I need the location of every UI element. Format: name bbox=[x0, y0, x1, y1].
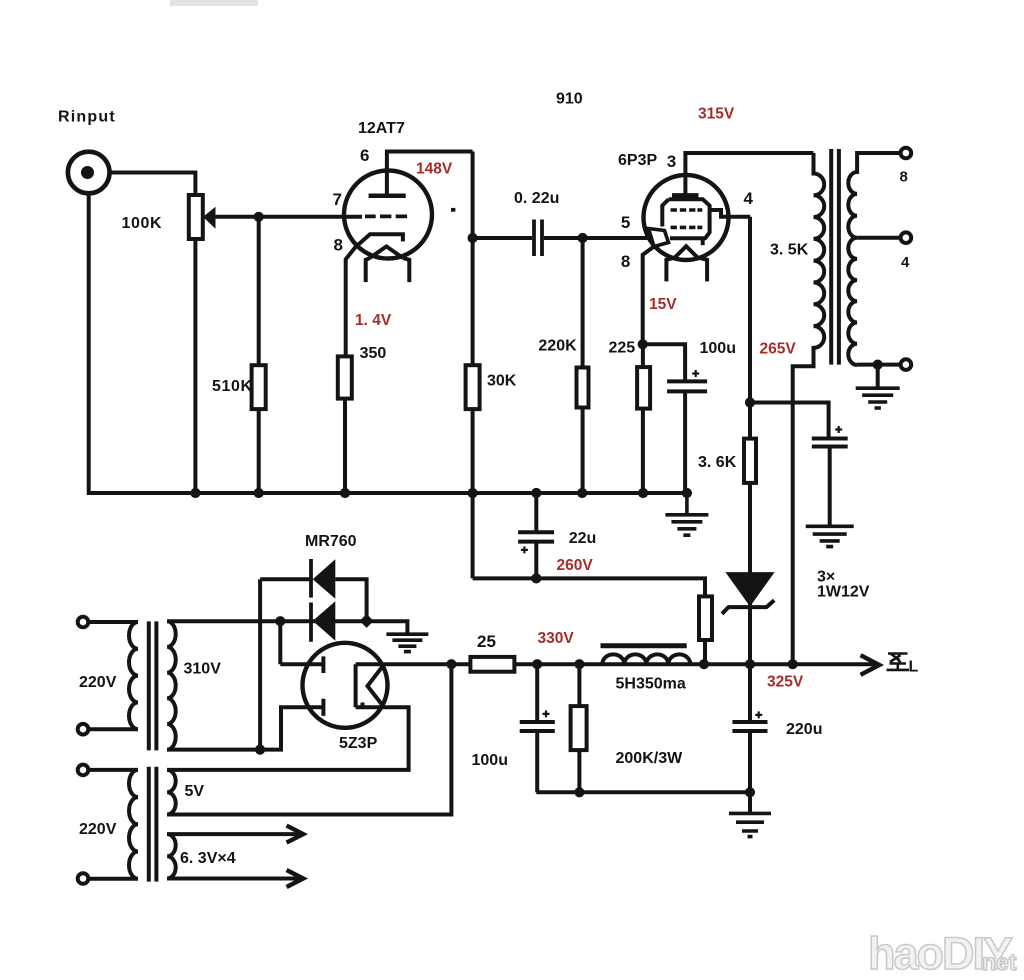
svg-text:5H350ma: 5H350ma bbox=[616, 676, 686, 693]
svg-text:4: 4 bbox=[901, 254, 910, 271]
svg-text:1W12V: 1W12V bbox=[817, 584, 870, 601]
svg-text:100u: 100u bbox=[700, 340, 736, 357]
svg-text:220u: 220u bbox=[786, 721, 822, 738]
svg-text:6: 6 bbox=[360, 146, 369, 165]
svg-text:330V: 330V bbox=[538, 630, 575, 647]
svg-text:22u: 22u bbox=[569, 530, 597, 547]
svg-text:12AT7: 12AT7 bbox=[358, 120, 405, 137]
svg-text:350: 350 bbox=[360, 345, 387, 362]
svg-text:5: 5 bbox=[621, 213, 630, 232]
svg-text:L: L bbox=[909, 659, 919, 676]
svg-text:100u: 100u bbox=[472, 752, 508, 769]
svg-text:net: net bbox=[982, 949, 1017, 975]
svg-text:25: 25 bbox=[477, 632, 496, 651]
svg-text:8: 8 bbox=[621, 252, 630, 271]
svg-text:200K/3W: 200K/3W bbox=[616, 750, 684, 767]
svg-text:MR760: MR760 bbox=[305, 533, 357, 550]
svg-text:3. 6K: 3. 6K bbox=[698, 454, 737, 471]
svg-text:Rinput: Rinput bbox=[58, 109, 116, 126]
svg-text:315V: 315V bbox=[698, 106, 735, 123]
svg-text:3. 5K: 3. 5K bbox=[770, 242, 809, 259]
svg-text:4: 4 bbox=[744, 189, 754, 208]
svg-text:325V: 325V bbox=[767, 674, 804, 691]
svg-text:7: 7 bbox=[333, 190, 342, 209]
svg-text:510K: 510K bbox=[212, 378, 253, 395]
svg-text:6. 3V×4: 6. 3V×4 bbox=[180, 850, 236, 867]
svg-text:5Z3P: 5Z3P bbox=[339, 735, 378, 752]
svg-text:225: 225 bbox=[609, 340, 636, 357]
svg-text:220V: 220V bbox=[79, 674, 117, 691]
svg-text:30K: 30K bbox=[487, 373, 517, 390]
svg-text:3: 3 bbox=[667, 152, 676, 171]
svg-text:100K: 100K bbox=[122, 215, 163, 232]
svg-text:220V: 220V bbox=[79, 821, 117, 838]
svg-text:220K: 220K bbox=[538, 338, 577, 355]
svg-text:265V: 265V bbox=[760, 341, 797, 358]
svg-text:310V: 310V bbox=[184, 661, 222, 678]
svg-text:8: 8 bbox=[900, 169, 908, 186]
svg-text:15V: 15V bbox=[649, 296, 677, 313]
svg-text:910: 910 bbox=[556, 91, 583, 108]
svg-text:5V: 5V bbox=[185, 783, 205, 800]
svg-text:8: 8 bbox=[334, 236, 343, 255]
svg-text:6P3P: 6P3P bbox=[618, 152, 657, 169]
svg-text:1. 4V: 1. 4V bbox=[355, 312, 392, 329]
svg-text:260V: 260V bbox=[557, 557, 594, 574]
svg-text:148V: 148V bbox=[416, 161, 453, 178]
svg-text:0. 22u: 0. 22u bbox=[514, 190, 559, 207]
